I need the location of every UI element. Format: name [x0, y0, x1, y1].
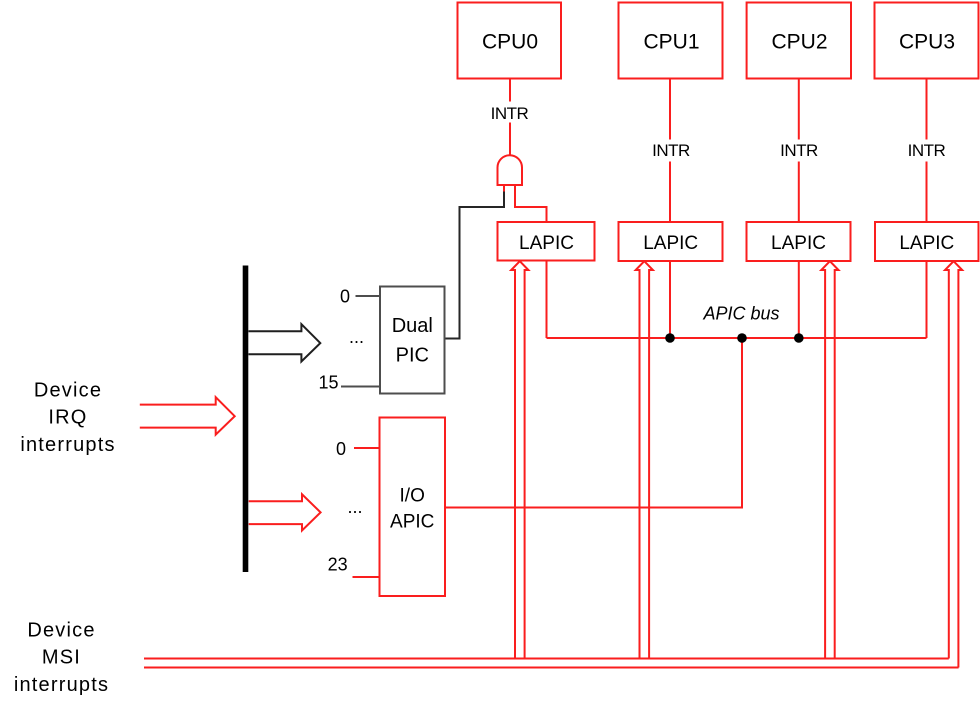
svg-text:INTR: INTR — [780, 141, 818, 160]
svg-text:APIC: APIC — [390, 512, 434, 533]
svg-text:CPU1: CPU1 — [643, 31, 699, 54]
svg-text:15: 15 — [318, 373, 338, 393]
CPU2 box — [747, 3, 851, 79]
junction dot node LAPIC2/bus — [665, 333, 675, 343]
svg-text:CPU0: CPU0 — [482, 31, 538, 54]
wire I/O APIC output to APIC bus — [445, 338, 742, 508]
svg-text:Device: Device — [34, 379, 102, 401]
svg-text:INTR: INTR — [652, 141, 690, 160]
pin stub I/O APIC 0 — [354, 447, 380, 449]
LAPIC2 box — [619, 222, 723, 261]
pin stub Dual PIC 15 — [341, 386, 380, 388]
label Device IRQ interrupts — [20, 379, 115, 456]
Dual PIC box — [380, 287, 445, 394]
MSI arrow into LAPIC3 — [821, 261, 838, 658]
wire LAPIC2 bottom to APIC bus — [669, 261, 671, 338]
svg-text:23: 23 — [328, 555, 348, 575]
svg-text:LAPIC: LAPIC — [771, 233, 826, 254]
svg-text:INTR: INTR — [908, 141, 946, 160]
svg-text:0: 0 — [340, 287, 350, 307]
AND gate at CPU0 INTR — [498, 155, 523, 185]
svg-text:I/O: I/O — [400, 486, 425, 507]
wire LAPIC3 bottom to APIC bus — [798, 261, 800, 338]
wire CPU0 to AND gate (gap for INTR label) — [509, 79, 511, 155]
svg-text:CPU3: CPU3 — [899, 31, 955, 54]
svg-text:INTR: INTR — [491, 104, 529, 123]
CPU0 box — [458, 3, 562, 79]
wire CPU3 to LAPIC3 (gap for INTR label) — [926, 79, 928, 222]
svg-text:PIC: PIC — [396, 345, 429, 367]
svg-text:MSI: MSI — [42, 647, 81, 669]
MSI arrow into LAPIC4 — [945, 261, 962, 667]
block arrow bar to I/O APIC (red) — [249, 494, 321, 530]
wire CPU1 to LAPIC1 (gap for INTR label) — [669, 79, 671, 222]
svg-text:Device: Device — [27, 620, 95, 642]
wire LAPIC1 bottom to APIC bus — [546, 261, 548, 339]
CPU1 box — [619, 3, 723, 79]
pin stub Dual PIC 0 — [356, 295, 381, 297]
LAPIC3 box — [747, 222, 851, 261]
block arrow bar to Dual PIC (black) — [249, 324, 321, 361]
LAPIC4 box — [875, 222, 979, 261]
svg-text:LAPIC: LAPIC — [899, 233, 954, 254]
svg-text:LAPIC: LAPIC — [643, 233, 698, 254]
MSI rail lower — [144, 667, 959, 669]
CPU3 box — [875, 3, 979, 79]
svg-text:IRQ: IRQ — [48, 407, 87, 429]
wire LAPIC4 bottom to APIC bus right end — [926, 261, 928, 338]
junction dot node LAPIC3/bus — [794, 333, 804, 343]
svg-text:LAPIC: LAPIC — [519, 233, 574, 254]
svg-text:interrupts: interrupts — [20, 434, 115, 456]
svg-text:Dual: Dual — [392, 315, 433, 337]
interrupt source bar — [243, 266, 249, 573]
svg-text:APIC bus: APIC bus — [702, 304, 779, 324]
LAPIC1 box — [498, 222, 595, 261]
wire CPU2 to LAPIC2 (gap for INTR label) — [798, 79, 800, 222]
pin stub I/O APIC 23 — [353, 576, 380, 578]
junction dot node IOAPIC/bus — [737, 333, 747, 343]
I/O APIC box — [380, 418, 446, 597]
label Device MSI interrupts — [14, 620, 109, 696]
svg-text:0: 0 — [336, 439, 346, 459]
wire gate right pin to LAPIC1 — [515, 185, 547, 223]
block arrow Device IRQ to bar (red) — [140, 397, 235, 434]
wire APIC bus horizontal — [547, 337, 927, 339]
svg-text:CPU2: CPU2 — [771, 31, 827, 54]
wire gate left pin red stub — [503, 185, 505, 192]
svg-text:...: ... — [347, 497, 362, 517]
MSI arrow into LAPIC1 — [511, 261, 528, 658]
MSI arrow into LAPIC2 — [636, 261, 653, 658]
svg-text:interrupts: interrupts — [14, 674, 109, 696]
MSI rail upper — [144, 658, 949, 660]
wire gate left pin black to Dual PIC — [445, 192, 504, 339]
svg-text:...: ... — [349, 327, 364, 347]
